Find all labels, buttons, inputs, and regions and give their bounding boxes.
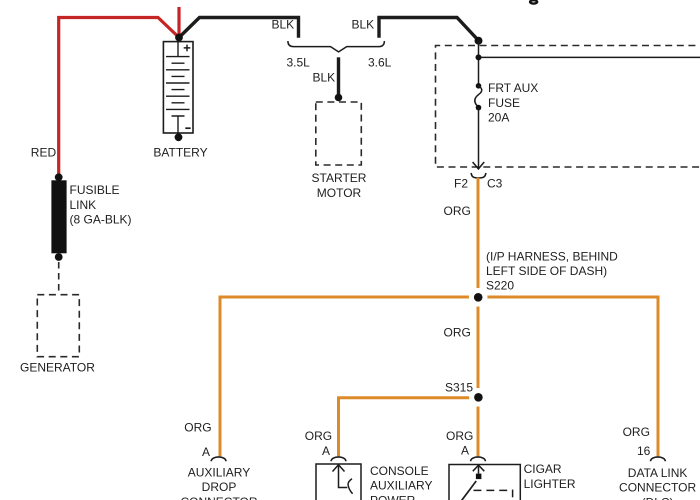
junction dot battery negative	[175, 133, 183, 141]
brace engine variants	[288, 41, 385, 52]
junction dot battery feed at fuse block	[475, 37, 483, 45]
battery B1	[163, 42, 193, 133]
wire ORG S220 left branch to auxiliary drop connector	[220, 297, 478, 456]
wire BLK 3.6L stub to fuse block junction	[379, 18, 479, 41]
svg-text:DROP: DROP	[202, 480, 237, 494]
wire thin fuse block internal bus to right	[479, 56, 700, 58]
junction dot fusible link top	[55, 173, 63, 181]
svg-text:ORG: ORG	[444, 204, 471, 218]
svg-text:STARTER: STARTER	[312, 171, 367, 185]
wire thin fuse to connector with arrow	[478, 108, 480, 168]
wire BLK brace to starter motor	[337, 57, 340, 97]
svg-text:(I/P HARNESS, BEHIND: (I/P HARNESS, BEHIND	[486, 249, 618, 263]
splice S315	[469, 388, 488, 407]
wire ORG S315 branch to console auxiliary power	[339, 398, 479, 457]
svg-text:FUSE: FUSE	[488, 96, 520, 110]
svg-text:A: A	[461, 444, 469, 458]
svg-text:RED: RED	[31, 146, 57, 160]
svg-text:LINK: LINK	[70, 198, 97, 212]
svg-text:S220: S220	[486, 278, 514, 292]
svg-text:ORG: ORG	[184, 421, 211, 435]
starter motor dashed box	[316, 102, 362, 165]
wire RED from battery junction up (cropped)	[177, 7, 180, 38]
wire RED battery to fusible link	[59, 18, 179, 178]
generator dashed box	[37, 295, 79, 357]
svg-text:S315: S315	[445, 380, 473, 394]
connector F2/C3 cup	[471, 173, 486, 178]
fuse block dashed box	[436, 46, 700, 168]
svg-text:20A: 20A	[488, 111, 509, 125]
svg-text:POWER: POWER	[370, 494, 416, 500]
svg-text:CIGAR: CIGAR	[524, 462, 562, 476]
svg-text:BLK: BLK	[313, 70, 336, 84]
wire BLK battery to 3.5L stub	[179, 18, 299, 38]
svg-text:ORG: ORG	[444, 325, 471, 339]
splice S220	[469, 288, 488, 307]
svg-text:ORG: ORG	[305, 429, 332, 443]
junction dot fusible link bottom	[55, 253, 63, 261]
svg-text:ORG: ORG	[623, 425, 650, 439]
svg-text:LIGHTER: LIGHTER	[524, 477, 576, 491]
console auxiliary power box	[316, 464, 361, 500]
svg-text:DATA LINK: DATA LINK	[628, 466, 688, 480]
svg-text:BLK: BLK	[352, 17, 375, 31]
svg-text:FRT AUX: FRT AUX	[488, 81, 538, 95]
junction dot starter motor	[335, 94, 343, 102]
connector dome data link	[651, 457, 666, 461]
svg-text:CONSOLE: CONSOLE	[370, 464, 429, 478]
cigar lighter internal element	[462, 465, 513, 500]
svg-text:16: 16	[637, 444, 651, 458]
svg-text:ORG: ORG	[446, 429, 473, 443]
svg-text:BATTERY: BATTERY	[153, 146, 207, 160]
svg-text:BLK: BLK	[272, 17, 295, 31]
svg-text:C3: C3	[487, 177, 503, 191]
wire dashed fusible link to generator	[58, 262, 60, 295]
svg-text:AUXILIARY: AUXILIARY	[188, 465, 250, 479]
svg-text:3.6L: 3.6L	[368, 55, 392, 69]
fuse FRT AUX 20A	[475, 83, 482, 110]
svg-text:CONNECTOR: CONNECTOR	[619, 481, 696, 495]
svg-text:LEFT SIDE OF DASH): LEFT SIDE OF DASH)	[486, 264, 607, 278]
svg-text:CONNECTOR: CONNECTOR	[180, 495, 257, 500]
title text (cropped descender of bold g)	[530, 0, 537, 3]
svg-text:3.5L: 3.5L	[287, 55, 311, 69]
wire thin fuse block internal vertical	[478, 41, 480, 86]
junction dot internal bus	[476, 54, 482, 60]
svg-text:(DLC): (DLC)	[642, 495, 674, 500]
svg-text:A: A	[322, 444, 330, 458]
fusible link body	[51, 180, 66, 253]
wire ORG C3 to S220	[477, 178, 480, 297]
svg-text:(8 GA-BLK): (8 GA-BLK)	[70, 213, 132, 227]
svg-text:MOTOR: MOTOR	[317, 186, 362, 200]
junction dot battery positive	[175, 34, 183, 42]
svg-text:FUSIBLE: FUSIBLE	[70, 183, 120, 197]
console internal terminal symbol	[333, 465, 353, 494]
connector dome auxiliary drop	[211, 457, 226, 461]
svg-text:F2: F2	[454, 177, 468, 191]
svg-text:AUXILIARY: AUXILIARY	[370, 479, 432, 493]
connector dome console	[331, 457, 346, 461]
wire ORG S220 right branch to data link connector	[478, 297, 658, 456]
wire ORG S315 to cigar lighter	[477, 398, 480, 456]
cigar lighter box	[449, 465, 520, 500]
svg-text:GENERATOR: GENERATOR	[20, 360, 95, 374]
svg-text:A: A	[202, 445, 210, 459]
connector dome cigar lighter	[471, 457, 486, 461]
wire ORG S220 to S315	[477, 297, 480, 398]
